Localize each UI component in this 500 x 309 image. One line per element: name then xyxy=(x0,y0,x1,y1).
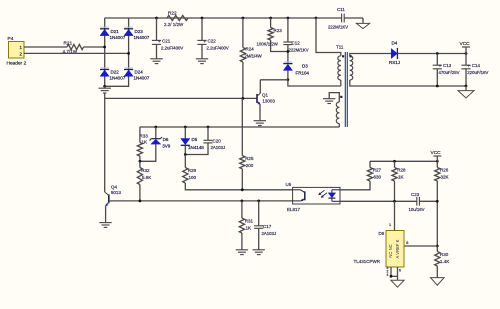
svg-text:6: 6 xyxy=(399,269,401,273)
capacitor C14 xyxy=(461,54,488,87)
svg-text:U5: U5 xyxy=(286,182,292,187)
svg-text:2A103J: 2A103J xyxy=(211,145,226,150)
wire base Q1 xyxy=(105,97,257,99)
ground TL431 (power) xyxy=(391,280,404,287)
wire opto cathode line xyxy=(340,200,417,202)
wire TL431 bottom pins xyxy=(387,266,402,280)
resistor R25 xyxy=(240,156,254,190)
wire opto to R27 xyxy=(340,181,370,190)
svg-text:3V9: 3V9 xyxy=(162,144,171,149)
svg-text:R31: R31 xyxy=(245,219,254,224)
wire top rail xyxy=(105,17,316,19)
node R32 bottom xyxy=(139,200,142,203)
IC D6 TL431 xyxy=(354,231,405,268)
svg-text:5.6K: 5.6K xyxy=(142,175,151,180)
svg-text:R28: R28 xyxy=(397,168,406,173)
power VCC output xyxy=(460,41,471,54)
wire rail to primary xyxy=(316,18,341,56)
ground C22 xyxy=(196,58,208,60)
wire secondary top rail xyxy=(355,53,391,55)
wire R21 to bridge xyxy=(84,46,105,48)
svg-text:D21: D21 xyxy=(111,29,120,34)
svg-text:C22: C22 xyxy=(208,38,217,43)
resistor R23 xyxy=(257,18,288,52)
svg-text:R30: R30 xyxy=(440,252,449,257)
svg-text:Header 2: Header 2 xyxy=(7,61,27,67)
ground C11 (power) xyxy=(356,18,369,29)
wire pin2 xyxy=(24,52,129,54)
svg-text:1N4007: 1N4007 xyxy=(110,76,126,81)
wire pin1 xyxy=(24,46,67,48)
svg-text:RS1J: RS1J xyxy=(389,60,400,65)
node D6 top xyxy=(154,126,157,129)
node C21 top xyxy=(155,17,158,20)
capacitor C23 xyxy=(409,192,438,212)
svg-text:R27: R27 xyxy=(373,168,382,173)
svg-text:9013: 9013 xyxy=(111,190,122,195)
ground output (power) xyxy=(458,86,474,98)
node R23 top xyxy=(269,17,272,20)
resistor R21 xyxy=(63,40,84,53)
ground C21 xyxy=(150,58,162,60)
node D5 top xyxy=(184,126,187,129)
node D3 anode xyxy=(287,78,290,81)
svg-text:222M/1KV: 222M/1KV xyxy=(289,47,309,52)
svg-text:C23: C23 xyxy=(411,192,420,197)
capacitor C12 xyxy=(283,18,308,64)
wire Q4 base line xyxy=(109,200,293,202)
wire Q4 collector xyxy=(104,93,106,192)
svg-text:D6: D6 xyxy=(379,231,385,236)
wire secondary bottom rail xyxy=(355,85,466,87)
transistor Q4 xyxy=(105,185,122,223)
ground C17 xyxy=(253,249,265,251)
svg-text:D3: D3 xyxy=(302,64,308,69)
svg-text:1: 1 xyxy=(389,223,391,227)
node R24 top xyxy=(242,17,245,20)
resistor R26 xyxy=(435,161,449,246)
svg-text:220uF/16V: 220uF/16V xyxy=(467,70,488,75)
resistor R30 xyxy=(435,246,450,278)
svg-text:1N4007: 1N4007 xyxy=(110,35,126,40)
svg-text:100K/1/2W: 100K/1/2W xyxy=(257,42,279,47)
diode D24 xyxy=(124,68,150,81)
capacitor C13 xyxy=(433,54,460,87)
svg-text:R23: R23 xyxy=(274,28,283,33)
node snubber join xyxy=(287,50,290,53)
svg-text:10u/16V: 10u/16V xyxy=(409,207,425,212)
wire R24 down to R25 xyxy=(241,98,243,155)
diode D21 xyxy=(100,27,126,40)
svg-text:NC NC: NC NC xyxy=(388,244,393,257)
node bridge minus xyxy=(103,85,106,88)
svg-text:T11: T11 xyxy=(336,45,344,50)
svg-text:C20: C20 xyxy=(213,138,222,143)
svg-text:222M/1KV: 222M/1KV xyxy=(328,25,348,30)
node VCC mid xyxy=(436,160,439,163)
node R33/D6 join xyxy=(139,160,142,163)
svg-text:EL817: EL817 xyxy=(287,207,301,212)
capacitor C17 xyxy=(254,201,276,250)
resistor R24 xyxy=(240,18,262,98)
transformer core xyxy=(344,52,346,127)
svg-text:470uF/25V: 470uF/25V xyxy=(439,70,460,75)
zener D6 xyxy=(140,127,171,161)
resistor R32 xyxy=(137,161,151,201)
svg-text:R32: R32 xyxy=(141,168,150,173)
svg-text:1N4148: 1N4148 xyxy=(188,145,204,150)
diode D4 xyxy=(389,41,400,65)
svg-text:D4: D4 xyxy=(392,41,398,46)
node R31 top xyxy=(241,200,244,203)
wire bridge right column xyxy=(105,18,129,86)
node C23 right xyxy=(436,200,439,203)
svg-text:32K: 32K xyxy=(441,175,449,180)
transformer T11 secondary xyxy=(350,54,355,87)
node AC1 xyxy=(103,46,106,49)
wire TL431 ref xyxy=(404,245,437,247)
svg-text:1K: 1K xyxy=(398,175,404,180)
svg-text:630: 630 xyxy=(374,175,382,180)
node C20 top xyxy=(207,126,210,129)
node C13 top xyxy=(436,52,439,55)
wire TL431 top pin xyxy=(394,201,396,230)
wire D4 cathode to VCC node xyxy=(397,53,466,55)
svg-text:4: 4 xyxy=(387,273,389,277)
resistor R29 xyxy=(183,155,293,190)
node Q1 base / R24 xyxy=(242,97,245,100)
svg-text:2.2/ 1/2W: 2.2/ 1/2W xyxy=(164,22,184,27)
polarity dot primary xyxy=(342,55,344,57)
node R28 top xyxy=(393,160,396,163)
svg-text:VCC: VCC xyxy=(431,150,442,156)
svg-text:100: 100 xyxy=(189,175,197,180)
svg-text:C12: C12 xyxy=(292,40,301,45)
svg-text:A VREF K: A VREF K xyxy=(395,239,400,258)
svg-text:D22: D22 xyxy=(111,70,120,75)
svg-text:TL431CPWR: TL431CPWR xyxy=(354,259,381,264)
svg-text:2M/1/4W: 2M/1/4W xyxy=(245,54,263,59)
wire mid VCC rail xyxy=(370,160,437,162)
power VCC mid xyxy=(431,150,442,162)
node R25 bottom xyxy=(241,188,244,191)
transformer T11 primary xyxy=(336,45,344,87)
svg-text:1K: 1K xyxy=(246,226,252,231)
svg-text:C13: C13 xyxy=(443,63,452,68)
node C14 top / VCC xyxy=(465,52,468,55)
capacitor C22 xyxy=(197,18,228,59)
wire D3 anode stub xyxy=(287,70,289,79)
transformer T11 aux winding xyxy=(329,93,339,127)
svg-text:R26: R26 xyxy=(440,168,449,173)
polarity dot aux xyxy=(340,96,342,98)
svg-text:R21: R21 xyxy=(64,40,73,45)
polarity dot secondary xyxy=(349,55,351,57)
svg-text:C11: C11 xyxy=(337,7,345,12)
node C14 bottom xyxy=(465,85,468,88)
svg-text:2.2uF/400V: 2.2uF/400V xyxy=(207,45,229,50)
svg-text:13003: 13003 xyxy=(262,98,275,103)
diode D23 xyxy=(124,27,150,40)
node D5/R29 join xyxy=(184,153,187,156)
ground bridge xyxy=(99,86,111,93)
wire D3 node to primary bottom xyxy=(288,80,341,86)
svg-text:C14: C14 xyxy=(472,63,481,68)
wire bridge left column xyxy=(104,18,106,86)
svg-text:D5: D5 xyxy=(192,137,198,142)
svg-text:D23: D23 xyxy=(135,29,144,34)
node C13 bottom xyxy=(436,85,439,88)
node TL431 cathode pin xyxy=(393,200,396,203)
transistor Q1 xyxy=(257,80,275,121)
svg-text:C21: C21 xyxy=(162,38,171,43)
svg-text:1N4007: 1N4007 xyxy=(134,35,150,40)
svg-text:Q1: Q1 xyxy=(262,93,269,98)
node C22 top xyxy=(201,17,204,20)
wire aux rail xyxy=(140,126,339,128)
ground Q4 emitter xyxy=(99,222,111,224)
svg-text:R29: R29 xyxy=(188,168,197,173)
ground aux winding xyxy=(323,98,335,100)
wire D3 to Q1 collector xyxy=(260,79,288,81)
resistor R31 xyxy=(239,201,253,250)
ground R31 xyxy=(236,249,248,251)
svg-text:FR104: FR104 xyxy=(296,71,310,76)
ground Q1 emitter xyxy=(254,120,266,122)
svg-text:8: 8 xyxy=(406,241,408,245)
svg-text:R24: R24 xyxy=(246,47,255,52)
svg-text:P4: P4 xyxy=(8,36,14,42)
node C12 top xyxy=(287,17,290,20)
svg-text:1K: 1K xyxy=(142,140,148,145)
svg-text:R33: R33 xyxy=(140,133,149,138)
svg-text:1.4K: 1.4K xyxy=(440,259,449,264)
svg-text:C17: C17 xyxy=(263,224,272,229)
capacitor C21 xyxy=(152,18,183,59)
resistor R28 xyxy=(392,161,406,201)
optocoupler U5 xyxy=(286,182,341,212)
capacitor C11 xyxy=(316,7,363,30)
resistor R33 xyxy=(137,127,148,161)
connector P4 xyxy=(7,36,27,67)
resistor R27 xyxy=(367,161,381,181)
svg-text:R25: R25 xyxy=(245,156,254,161)
diode D5 xyxy=(181,127,205,155)
svg-text:VCC: VCC xyxy=(460,41,471,47)
diode D22 xyxy=(100,68,126,81)
svg-text:2.2uF/400V: 2.2uF/400V xyxy=(161,45,183,50)
ground R30 (power) xyxy=(431,278,445,286)
svg-text:1N4007: 1N4007 xyxy=(134,76,150,81)
svg-text:2A103J: 2A103J xyxy=(262,231,277,236)
diode D3 xyxy=(283,62,309,76)
node C17 top xyxy=(257,200,260,203)
svg-text:R22: R22 xyxy=(168,11,177,16)
svg-text:D6: D6 xyxy=(163,137,169,142)
svg-text:200: 200 xyxy=(246,163,254,168)
capacitor C20 xyxy=(185,127,225,155)
svg-text:D24: D24 xyxy=(135,70,144,75)
node R30 top xyxy=(436,245,439,248)
node C11 left xyxy=(315,17,318,20)
node AC2 xyxy=(127,52,130,55)
resistor R22 xyxy=(164,11,188,27)
